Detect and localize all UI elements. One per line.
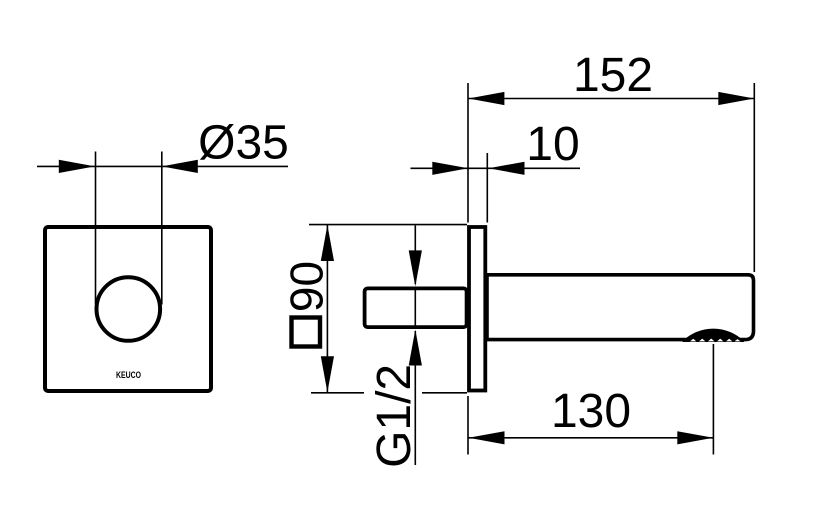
- dim 90 dimension line: [326, 225, 328, 392]
- svg-text:G1/2: G1/2: [368, 364, 421, 468]
- aerator knurl notches: [690, 339, 741, 342]
- dim 10 dimension line: [411, 167, 581, 169]
- dim 90 arrow down: [321, 356, 334, 392]
- square wall plate (front view): [45, 227, 211, 391]
- dim G1/2 dimension line upper: [414, 226, 416, 285]
- dim 152 extension line left: [467, 83, 469, 223]
- dim 130 arrow right: [677, 431, 713, 444]
- dim 90 extension line bottom right segment: [422, 392, 467, 394]
- dim G1/2 arrow up: [409, 330, 422, 366]
- dim 130 dimension line: [469, 437, 714, 439]
- dim 10 extension line: [486, 153, 488, 223]
- inlet nipple G1/2 (side view): [365, 288, 467, 327]
- dim 130 arrow left: [469, 431, 505, 444]
- svg-text:KEUCO: KEUCO: [116, 370, 141, 381]
- dim G1/2 arrow down: [409, 250, 422, 286]
- rectangular wall plate (side view): [469, 227, 485, 391]
- dim 152 dimension line: [468, 98, 754, 100]
- dim 90 extension line top: [309, 224, 467, 226]
- aerator knurl mound: [683, 329, 744, 341]
- dim 90 arrow up: [321, 225, 334, 261]
- square-section symbol: [292, 318, 321, 347]
- dim 130 extension line left: [467, 396, 469, 455]
- dim G1/2 dimension line lower: [414, 331, 416, 465]
- svg-text:Ø35: Ø35: [198, 116, 289, 169]
- dim 10 arrow right: [489, 162, 525, 175]
- dim 152 arrow left: [468, 92, 504, 105]
- svg-text:10: 10: [526, 118, 579, 171]
- dim G1/2 dimension line through nipple: [414, 288, 416, 328]
- dim Ø35 arrow left: [59, 160, 95, 173]
- dim Ø35 extension line right: [161, 152, 163, 305]
- dim 152 extension line right: [753, 83, 755, 272]
- dim 90 extension line bottom left segment: [311, 392, 364, 394]
- svg-text:152: 152: [573, 49, 653, 102]
- dim 152 arrow right: [718, 92, 754, 105]
- svg-text:130: 130: [551, 385, 631, 438]
- dim Ø35 arrow right: [162, 160, 198, 173]
- dim 10 arrow left: [432, 162, 468, 175]
- svg-text:90: 90: [281, 261, 333, 312]
- dim 130 extension line right: [712, 344, 714, 455]
- dim Ø35 dimension line: [37, 165, 288, 167]
- dim Ø35 extension line left: [95, 152, 97, 305]
- spout pipe (side view): [487, 275, 754, 340]
- handle circle (front view): [97, 277, 161, 341]
